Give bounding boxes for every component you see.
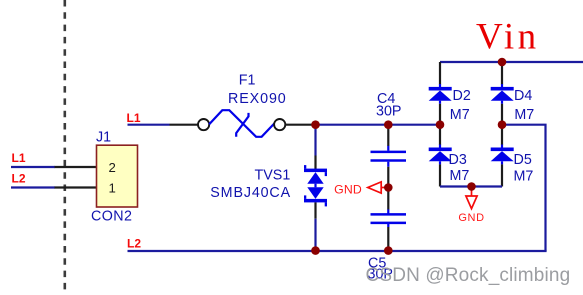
junction TVS/L2 node: [311, 246, 320, 255]
svg-text:L2: L2: [127, 236, 141, 250]
diode D5 top pin: [501, 125, 503, 145]
svg-text:J1: J1: [96, 130, 111, 146]
svg-text:30P: 30P: [376, 104, 401, 120]
diode D2 top pin: [439, 62, 441, 85]
svg-text:Vin: Vin: [476, 16, 539, 57]
wire L2 bottom: [128, 250, 547, 252]
fuse F1 body: [209, 110, 275, 137]
svg-text:TVS1: TVS1: [255, 168, 291, 184]
svg-text:D5: D5: [514, 152, 532, 168]
svg-text:CSDN @Rock_climbing: CSDN @Rock_climbing: [366, 265, 571, 286]
wire TVS bottom: [314, 219, 316, 251]
diode D5 bottom pin: [501, 164, 503, 186]
junction Vin/D4 node: [498, 58, 507, 67]
svg-text:GND: GND: [458, 212, 484, 224]
wire bridge bottom: [440, 185, 502, 187]
connector J1 pin 1 wire: [55, 186, 97, 188]
junction C4/C5 GND node: [384, 183, 393, 192]
TVS1 diode symbol: [304, 165, 327, 206]
svg-text:2: 2: [109, 160, 116, 175]
sheet boundary dashed line: [64, 0, 67, 295]
wire L1 to fuse: [128, 124, 170, 126]
capacitor C5 bottom pin: [387, 227, 389, 251]
wire Vin top: [440, 61, 583, 63]
junction C5/L2 node: [384, 246, 393, 255]
svg-text:CON2: CON2: [91, 209, 132, 225]
junction C4 top node: [384, 120, 393, 129]
diode D2 bottom pin: [439, 104, 441, 125]
connector J1 body: [97, 145, 138, 207]
svg-text:L1: L1: [127, 111, 141, 125]
capacitor C4: [371, 146, 407, 167]
svg-text:REX090: REX090: [228, 91, 287, 107]
svg-text:L1: L1: [12, 151, 26, 165]
diode D4 top pin: [501, 62, 503, 85]
svg-text:D2: D2: [453, 88, 471, 104]
svg-text:D4: D4: [514, 88, 532, 104]
GND port below bridge: [466, 191, 477, 209]
wire TVS top: [314, 125, 316, 156]
capacitor C5: [371, 209, 407, 227]
junction D2/D3 node: [436, 120, 445, 129]
wire right link from bridge to L2: [502, 125, 546, 251]
diode D3 bottom pin: [439, 164, 441, 186]
svg-text:M7: M7: [514, 107, 534, 123]
TVS1 top pin: [314, 156, 316, 170]
svg-text:D3: D3: [449, 152, 467, 168]
diode D5: [491, 145, 514, 165]
junction bridge GND node: [467, 182, 476, 191]
diode D3: [429, 145, 452, 165]
wire main net L1 horizontal: [314, 124, 441, 126]
TVS1 bottom pin: [314, 202, 316, 218]
junction D4/D5 node: [498, 120, 507, 129]
GND port at C4/C5 midpoint: [368, 182, 387, 193]
fuse F1 cross stroke: [236, 113, 248, 137]
wire L2 left stub: [11, 186, 55, 188]
fuse F1 right pin: [286, 124, 316, 126]
junction fuse/TVS node: [311, 120, 320, 129]
svg-text:M7: M7: [450, 168, 470, 184]
svg-text:SMBJ40CA: SMBJ40CA: [210, 185, 291, 201]
svg-text:M7: M7: [450, 107, 470, 123]
capacitor C4 bottom pin / C5 top pin: [387, 167, 389, 210]
svg-text:GND: GND: [334, 182, 362, 196]
fuse F1 left pin: [170, 124, 199, 126]
diode D3 top pin: [439, 125, 441, 145]
diode D4 bottom pin: [501, 104, 503, 125]
diode D2: [429, 84, 452, 104]
svg-text:M7: M7: [514, 169, 534, 185]
fuse F1 right terminal circle: [274, 119, 285, 130]
svg-text:F1: F1: [239, 73, 256, 89]
svg-text:L2: L2: [12, 171, 26, 185]
capacitor C4 top pin: [387, 125, 389, 146]
connector J1 pin 2 wire: [55, 166, 97, 168]
diode D4: [491, 84, 514, 104]
svg-text:1: 1: [109, 180, 116, 195]
wire L1 left stub: [11, 166, 55, 168]
fuse F1 left terminal circle: [198, 119, 209, 130]
